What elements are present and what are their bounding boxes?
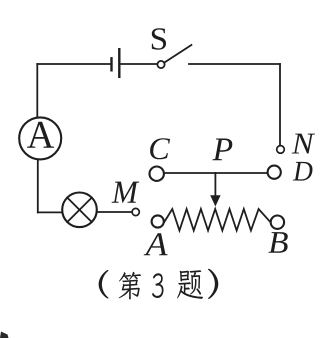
rheostat R1 resistive zigzag element [165, 209, 271, 231]
caption character Di (ordinal) [119, 272, 141, 300]
caption open parenthesis [99, 270, 109, 299]
battery B1 positive plate (long) [118, 49, 120, 77]
label N right terminal [292, 134, 315, 154]
wire: lamp to terminal M [97, 211, 133, 213]
rheostat terminal B circle [271, 216, 284, 229]
switch S blade (open) [165, 45, 192, 62]
label P slider [212, 139, 232, 161]
caption character Ti (problem) [177, 270, 203, 299]
wire: top horizontal from left corner to battery [37, 63, 110, 65]
switch S pivot circle [157, 61, 164, 68]
lamp L1 cross diagonal 1 [67, 198, 91, 222]
wire: top-left vertical segment [36, 64, 38, 118]
battery B1 negative plate (short) [110, 58, 112, 70]
wire: right vertical down to terminal N [279, 64, 281, 145]
caption close parenthesis [208, 269, 218, 299]
caption numeral 3 [152, 273, 163, 298]
terminal C circle [150, 167, 164, 181]
label A rheostat left end [144, 233, 168, 255]
label M lamp terminal [112, 182, 140, 203]
slider P arrowhead [210, 195, 220, 206]
wire: ammeter down to bottom-left corner [37, 160, 39, 212]
terminal M circle [132, 208, 139, 215]
slider P arrow stem [214, 173, 216, 198]
terminal D circle [268, 166, 281, 179]
label B rheostat right end [268, 232, 287, 253]
stray mark at bottom-left corner (scan artifact) [0, 332, 9, 338]
rheostat track wire from C to D [165, 172, 267, 174]
lamp L1 cross diagonal 2 [67, 198, 91, 222]
rheostat terminal A circle [152, 215, 164, 227]
label A inside ammeter [27, 122, 54, 148]
label S for switch [152, 28, 166, 50]
ammeter A1 circle [19, 117, 61, 159]
wire: bottom horizontal to lamp [38, 211, 63, 213]
label D track terminal [293, 162, 313, 181]
lamp L1 circle [62, 193, 97, 228]
wire: battery to switch pivot [121, 63, 157, 65]
label C track terminal [150, 138, 170, 159]
terminal N circle [277, 146, 285, 154]
wire: switch to top-right corner [189, 63, 280, 65]
